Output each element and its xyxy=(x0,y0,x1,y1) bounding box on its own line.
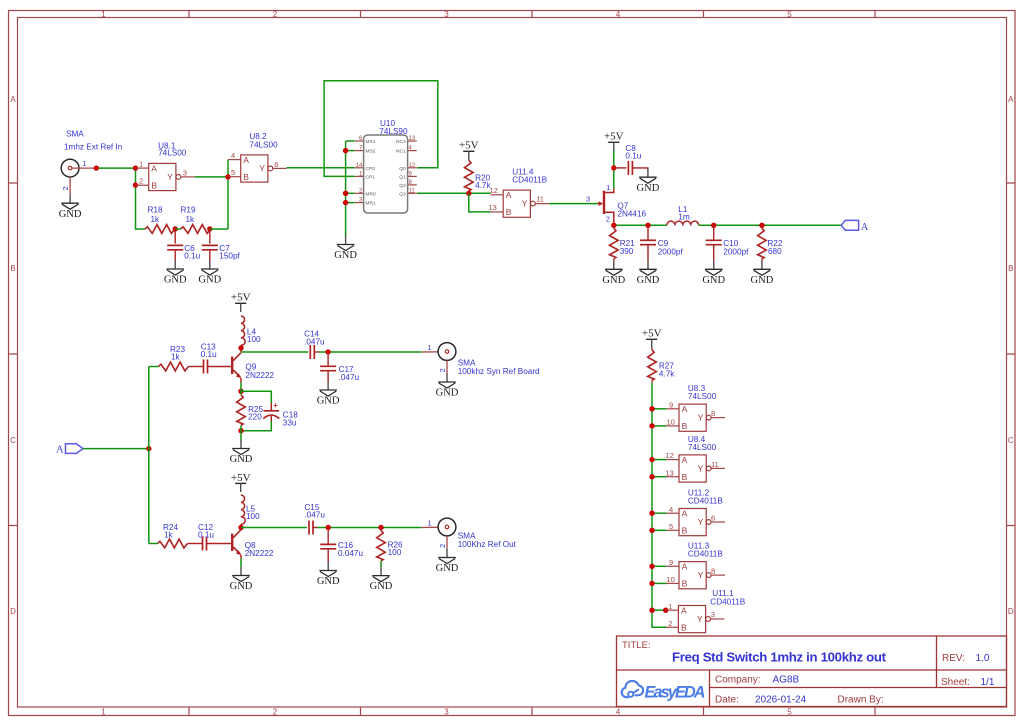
svg-text:2026-01-24: 2026-01-24 xyxy=(755,695,807,706)
ground below R26 xyxy=(370,567,393,592)
node junction C8 tap xyxy=(611,165,616,170)
transistor Q9 2N2222 xyxy=(232,353,274,383)
svg-text:C: C xyxy=(1008,436,1014,445)
svg-text:2N2222: 2N2222 xyxy=(245,549,274,558)
svg-text:12: 12 xyxy=(409,163,416,169)
node junction MS2 xyxy=(343,148,348,153)
svg-text:CD4011B: CD4011B xyxy=(710,598,745,607)
svg-text:CP1: CP1 xyxy=(365,174,375,180)
svg-text:2000pf: 2000pf xyxy=(723,247,749,256)
nand gate U11.4 CD4011B xyxy=(489,167,550,217)
svg-text:Drawn By:: Drawn By: xyxy=(838,695,884,706)
wire MR0 stub xyxy=(346,192,355,194)
ground below C7 xyxy=(198,261,221,286)
svg-text:100Khz Ref Out: 100Khz Ref Out xyxy=(458,540,517,549)
svg-text:100: 100 xyxy=(247,335,261,344)
svg-text:Company:: Company: xyxy=(715,675,761,686)
nand gate U11.1 CD4011B xyxy=(666,589,746,633)
svg-text:5: 5 xyxy=(669,522,673,531)
resistor R27 4.7k xyxy=(648,348,676,383)
svg-text:2: 2 xyxy=(438,544,447,548)
svg-text:1: 1 xyxy=(139,160,143,169)
wire U8.2 Y to U10 CP0 xyxy=(287,167,355,169)
node junction L5-collector xyxy=(240,524,242,527)
nand gate U8.4 74LS00 xyxy=(666,435,726,482)
transistor Q7 2N4416 xyxy=(586,183,647,225)
svg-text:0.1u: 0.1u xyxy=(198,531,214,540)
capacitor C10 2000pf xyxy=(706,225,749,260)
svg-text:2N4416: 2N4416 xyxy=(617,210,646,219)
svg-text:0.1u: 0.1u xyxy=(184,251,200,260)
svg-text:2: 2 xyxy=(273,708,278,717)
svg-text:1: 1 xyxy=(668,602,672,611)
capacitor C16 0.047u xyxy=(320,528,363,563)
svg-text:13: 13 xyxy=(409,136,416,142)
svg-text:390: 390 xyxy=(620,247,634,256)
wire R20 node down to U11.4 B xyxy=(469,193,491,212)
ground below SMA2 xyxy=(436,374,459,399)
net flag A left xyxy=(56,444,83,456)
resistor R24 1k xyxy=(158,523,188,548)
wire gate column vertical xyxy=(652,383,666,628)
pin 1 of SMA1 xyxy=(72,159,96,168)
svg-text:B: B xyxy=(10,264,15,273)
node junction MR1 xyxy=(343,200,348,205)
ground below C10 xyxy=(702,261,725,286)
node junction Q9 emitter xyxy=(238,389,243,394)
wire U11.4 Y to Q7 gate xyxy=(549,203,597,205)
svg-text:.047u: .047u xyxy=(339,373,360,382)
wire SMA1 to U8.1 inputs xyxy=(96,167,135,169)
svg-text:74LS00: 74LS00 xyxy=(249,141,278,150)
svg-text:3: 3 xyxy=(586,195,590,204)
ground below R22 xyxy=(751,261,774,286)
svg-text:NC1: NC1 xyxy=(396,149,406,155)
wire MS2 stub xyxy=(346,150,355,152)
svg-text:8: 8 xyxy=(711,567,715,576)
svg-text:R19: R19 xyxy=(181,205,196,214)
wire +5V to Q7 drain node xyxy=(613,151,615,189)
capacitor C6 0.1u xyxy=(167,229,200,261)
svg-text:TITLE:: TITLE: xyxy=(622,640,651,651)
svg-text:CD4011B: CD4011B xyxy=(688,497,723,506)
wire U8.1 B down to R18 xyxy=(136,185,146,229)
wire U10 Q3 to R20 node and U11.4 A xyxy=(417,192,491,194)
capacitor C17 .047u xyxy=(320,352,359,382)
svg-text:MS1: MS1 xyxy=(365,139,375,145)
node junction C17 tap xyxy=(325,349,330,354)
wire C15 to SMA3 xyxy=(317,527,422,529)
resistor R25 220 xyxy=(237,395,264,426)
resistor R23 1k xyxy=(159,345,189,371)
svg-text:74LS00: 74LS00 xyxy=(688,392,717,401)
svg-text:D: D xyxy=(10,607,16,616)
svg-text:EasyEDA: EasyEDA xyxy=(645,684,706,702)
capacitor C8 0.1u xyxy=(614,144,648,175)
frame column numbers top xyxy=(101,10,792,19)
svg-text:2: 2 xyxy=(139,177,143,186)
svg-text:74LS00: 74LS00 xyxy=(688,443,717,452)
svg-text:100: 100 xyxy=(246,512,260,521)
svg-text:R18: R18 xyxy=(148,205,163,214)
svg-text:6: 6 xyxy=(274,160,278,169)
svg-text:+: + xyxy=(273,401,278,411)
svg-text:2: 2 xyxy=(668,619,672,628)
svg-text:Q3: Q3 xyxy=(399,191,406,197)
svg-text:2: 2 xyxy=(606,215,610,224)
svg-text:B: B xyxy=(1008,264,1013,273)
svg-text:1m: 1m xyxy=(678,213,690,222)
svg-text:9: 9 xyxy=(669,558,673,567)
svg-text:10: 10 xyxy=(667,418,675,427)
wire collector row to C15 xyxy=(241,527,307,529)
svg-text:10: 10 xyxy=(667,575,675,584)
capacitor C15 .047u xyxy=(304,503,325,535)
resistor R19 1k xyxy=(181,205,211,233)
svg-text:4: 4 xyxy=(616,10,621,19)
svg-text:NC2: NC2 xyxy=(396,139,406,145)
node junction R26 tap xyxy=(378,525,383,530)
node junction R22 xyxy=(759,223,764,228)
svg-text:1: 1 xyxy=(83,159,87,168)
svg-text:4.7k: 4.7k xyxy=(659,369,675,378)
frame column ticks bottom xyxy=(189,707,875,716)
svg-text:3: 3 xyxy=(444,708,449,717)
svg-text:680: 680 xyxy=(768,247,782,256)
wire U10 MS1/MS2 tie down to ground xyxy=(345,141,347,237)
svg-text:6: 6 xyxy=(711,514,715,523)
svg-text:11: 11 xyxy=(536,194,544,203)
svg-text:1k: 1k xyxy=(164,531,174,540)
node junction C16 tap xyxy=(326,525,331,530)
svg-text:C: C xyxy=(10,436,16,445)
node junctions gate column xyxy=(649,406,668,613)
svg-text:A: A xyxy=(10,95,16,104)
wire MR1 stub xyxy=(346,202,355,204)
svg-text:Date:: Date: xyxy=(715,695,739,706)
ground below Q8 xyxy=(230,567,253,592)
ground below SMA3 xyxy=(436,549,459,574)
svg-text:33u: 33u xyxy=(283,418,297,427)
svg-text:CD4011B: CD4011B xyxy=(688,550,723,559)
svg-text:3: 3 xyxy=(183,168,187,177)
power +5V above L5 xyxy=(231,472,251,492)
svg-text:1.0: 1.0 xyxy=(976,653,990,664)
svg-text:1k: 1k xyxy=(171,353,181,362)
svg-text:74LS90: 74LS90 xyxy=(379,127,408,136)
power +5V above L4 xyxy=(231,292,251,312)
ground below SMA1 xyxy=(59,195,82,220)
svg-text:1k: 1k xyxy=(151,215,161,224)
svg-text:220: 220 xyxy=(248,413,262,422)
node junction R20-Q3 xyxy=(466,191,471,196)
wire emitter to R25 xyxy=(240,383,242,395)
ground below C9 xyxy=(637,261,660,286)
svg-text:1: 1 xyxy=(101,10,106,19)
wire Q7 source output row xyxy=(614,224,667,226)
svg-text:3: 3 xyxy=(444,10,449,19)
svg-text:A: A xyxy=(56,445,64,456)
wire U8.1 Y to U8.2 B xyxy=(195,176,228,178)
net flag A right xyxy=(841,220,869,233)
capacitor C13 0.1u xyxy=(189,342,232,373)
svg-text:13: 13 xyxy=(489,203,497,212)
svg-text:REV:: REV: xyxy=(942,653,965,664)
svg-text:CP0: CP0 xyxy=(365,166,375,172)
svg-text:A: A xyxy=(861,222,869,233)
resistor R26 100 xyxy=(377,528,403,568)
svg-text:12: 12 xyxy=(666,451,674,460)
svg-text:1k: 1k xyxy=(186,215,196,224)
frame column numbers bottom xyxy=(101,708,792,717)
svg-text:2: 2 xyxy=(438,368,447,372)
pin 2 of SMA2 xyxy=(438,360,447,373)
capacitor C9 2000pf xyxy=(640,225,683,260)
inductor L1 1m xyxy=(667,205,699,225)
nand gate U11.3 CD4011B xyxy=(666,542,725,589)
wire MS1 stub xyxy=(346,140,355,142)
power +5V above Q7 xyxy=(604,131,624,151)
svg-text:AG8B: AG8B xyxy=(773,675,800,686)
ground below C17 xyxy=(317,382,340,407)
nand gate U8.3 74LS00 xyxy=(666,384,725,431)
node junction U8.1 A xyxy=(133,165,138,170)
svg-text:11: 11 xyxy=(409,188,416,194)
capacitor C7 150pf xyxy=(202,229,241,261)
svg-text:.047u: .047u xyxy=(304,338,325,347)
wire into R24 xyxy=(149,543,158,545)
wire U8.1 input tie A-B xyxy=(135,168,137,185)
svg-text:2000pf: 2000pf xyxy=(658,247,684,256)
svg-text:5: 5 xyxy=(787,10,792,19)
wire Q8 emitter to ground xyxy=(240,559,242,568)
svg-text:Q1: Q1 xyxy=(399,174,406,180)
wire C14 to SMA2 xyxy=(319,351,422,353)
node junction R25 bottom xyxy=(238,428,243,433)
svg-text:1mhz Ext Ref In: 1mhz Ext Ref In xyxy=(64,143,123,152)
nand gate U8.2 74LS00 xyxy=(228,132,287,182)
node junction Q7 source xyxy=(611,223,616,228)
svg-text:1: 1 xyxy=(428,518,432,527)
frame row letters xyxy=(10,95,1014,616)
node junction U8.2 B xyxy=(225,174,230,179)
connector SMA3 (100Khz Ref Out) xyxy=(422,518,517,549)
wire R25 bottom to ground xyxy=(240,425,242,440)
wire U8.2 input tie, down to R19 xyxy=(227,160,229,229)
frame row ticks right xyxy=(1007,183,1016,526)
svg-text:5: 5 xyxy=(231,168,235,177)
svg-text:U8.2: U8.2 xyxy=(249,132,267,141)
wire A flag to splitter xyxy=(83,448,149,450)
svg-text:8: 8 xyxy=(711,409,715,418)
svg-text:Q0: Q0 xyxy=(399,166,406,172)
inductor L5 100 xyxy=(241,495,260,524)
svg-text:14: 14 xyxy=(356,163,363,169)
svg-text:Sheet:: Sheet: xyxy=(941,677,970,688)
svg-text:4: 4 xyxy=(231,151,235,160)
svg-text:100khz Syn Ref Board: 100khz Syn Ref Board xyxy=(458,367,540,376)
svg-text:100: 100 xyxy=(388,548,402,557)
svg-text:4: 4 xyxy=(616,708,621,717)
svg-text:74LS00: 74LS00 xyxy=(158,149,187,158)
wire into R23 xyxy=(149,366,159,368)
node junction R19-C7 xyxy=(207,226,212,231)
transistor Q8 2N2222 xyxy=(232,530,274,559)
power +5V above R27 xyxy=(642,328,662,348)
wire L1 to net flag A xyxy=(699,224,842,226)
svg-text:12: 12 xyxy=(490,186,498,195)
wire collector row to C14 xyxy=(241,351,308,353)
svg-text:4: 4 xyxy=(669,505,673,514)
svg-text:.047u: .047u xyxy=(304,511,325,520)
inductor L4 100 xyxy=(241,316,261,345)
node junction C9 xyxy=(645,223,650,228)
svg-text:0.047u: 0.047u xyxy=(338,549,363,558)
svg-text:Freq Std Switch 1mhz in 100khz: Freq Std Switch 1mhz in 100khz out xyxy=(672,650,887,665)
svg-text:0.1u: 0.1u xyxy=(625,152,641,161)
wire R18 to R19 xyxy=(175,228,181,230)
svg-text:9: 9 xyxy=(669,400,673,409)
svg-text:2: 2 xyxy=(273,10,278,19)
svg-text:1: 1 xyxy=(428,343,432,352)
resistor R22 680 xyxy=(758,225,783,261)
connector SMA2 (100khz Syn Ref Board) xyxy=(422,343,540,376)
svg-text:U11.1: U11.1 xyxy=(712,589,734,598)
svg-text:0.1u: 0.1u xyxy=(201,350,217,359)
node junction R18-R19-C6 xyxy=(173,226,178,231)
pin 2 of SMA1 xyxy=(61,177,70,195)
svg-text:1: 1 xyxy=(606,183,610,192)
wire splitter vertical xyxy=(148,367,150,544)
svg-text:13: 13 xyxy=(666,468,674,477)
wire R19 up to U8.2 xyxy=(210,228,228,230)
capacitor C18 33u electrolytic xyxy=(241,391,298,430)
svg-text:5: 5 xyxy=(787,708,792,717)
node junction A split xyxy=(146,446,151,451)
svg-text:1: 1 xyxy=(101,708,106,717)
node junction MR0 xyxy=(343,191,348,196)
svg-text:A: A xyxy=(1008,95,1014,104)
title block border xyxy=(617,636,1007,707)
node junction U8.1 B xyxy=(133,182,138,187)
svg-text:Q2: Q2 xyxy=(399,183,406,189)
resistor R18 1k xyxy=(145,205,175,233)
resistor R21 390 xyxy=(610,225,636,261)
svg-text:SMA: SMA xyxy=(66,130,84,139)
connector SMA top-left (1mhz Ext Ref In) xyxy=(61,130,122,178)
wire stubs to gate inputs xyxy=(652,409,666,610)
ground below U10 xyxy=(334,236,357,261)
svg-text:2: 2 xyxy=(61,186,70,190)
svg-text:MS2: MS2 xyxy=(365,149,375,155)
nand gate U8.1 74LS00 xyxy=(136,142,195,191)
ground below C8 xyxy=(637,169,660,194)
ground below R21 xyxy=(602,261,625,286)
svg-text:3: 3 xyxy=(711,610,715,619)
pin 2 of SMA3 xyxy=(438,536,447,549)
frame column ticks top xyxy=(189,11,875,18)
svg-text:1/1: 1/1 xyxy=(981,677,995,688)
svg-text:2N2222: 2N2222 xyxy=(245,371,274,380)
ground below Q9 emitter network xyxy=(230,440,253,465)
svg-text:CD4011B: CD4011B xyxy=(512,176,547,185)
capacitor C12 0.1u xyxy=(188,523,232,551)
power +5V above R20 xyxy=(459,140,479,160)
node junction SMA1-U8.1 xyxy=(94,165,99,170)
node junction C10 xyxy=(711,223,716,228)
frame row ticks left xyxy=(9,183,18,526)
EasyEDA logo xyxy=(622,681,706,702)
IC U10 74LS90 xyxy=(354,119,416,213)
node junction L4-collector xyxy=(240,345,242,352)
ground below C6 xyxy=(164,261,187,286)
ground below C16 xyxy=(317,562,340,587)
nand gate U11.2 CD4011B xyxy=(666,489,725,536)
svg-text:D: D xyxy=(1008,607,1014,616)
svg-text:150pf: 150pf xyxy=(219,251,240,260)
svg-text:MR1: MR1 xyxy=(365,201,376,207)
resistor R20 4.7k xyxy=(465,160,492,193)
svg-text:11: 11 xyxy=(711,460,719,469)
svg-text:MR0: MR0 xyxy=(365,191,376,197)
capacitor C14 .047u xyxy=(304,330,325,359)
wire feedback loop Q0 to CP1 xyxy=(324,81,438,177)
